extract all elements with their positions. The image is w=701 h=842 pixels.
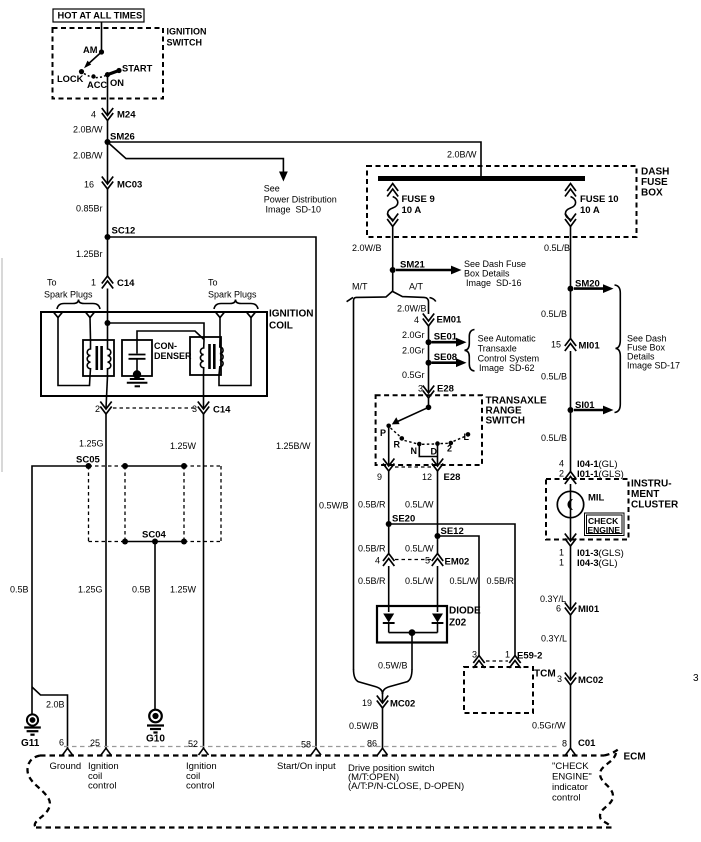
- svg-text:R: R: [394, 440, 401, 450]
- contact D: [435, 441, 440, 446]
- svg-text:DENSER: DENSER: [154, 351, 192, 361]
- connector MC02 pin 19: [377, 696, 388, 704]
- svg-text:5: 5: [425, 556, 430, 566]
- wire T2 primary out of coil box: [203, 375, 205, 409]
- svg-text:Box Details: Box Details: [464, 269, 510, 279]
- node SM21 (splice): [390, 267, 396, 273]
- svg-text:TCM: TCM: [534, 669, 556, 680]
- wire T2 secondary loop to terminal 4: [219, 318, 251, 386]
- svg-text:3: 3: [418, 384, 423, 394]
- svg-text:MC03: MC03: [117, 180, 142, 191]
- svg-text:3: 3: [693, 673, 699, 684]
- svg-text:control: control: [552, 793, 581, 804]
- svg-text:SM26: SM26: [110, 132, 135, 143]
- wire SI01 to instrument cluster, 0.5L/B: [570, 410, 572, 472]
- svg-text:START: START: [122, 64, 153, 74]
- svg-text:0.5L/W: 0.5L/W: [450, 576, 479, 586]
- ECM pin 86 entry: [378, 748, 388, 755]
- connector E28 joint dashed: [395, 466, 431, 468]
- connector C14 pin 2: [100, 402, 111, 410]
- brace over left spark plug terminals: [57, 300, 100, 310]
- switch arm to P with arrowhead: [398, 407, 429, 421]
- wire M24 to node SM26, 2.0B/W: [107, 121, 109, 143]
- svg-text:BOX: BOX: [641, 188, 663, 199]
- svg-text:2: 2: [559, 469, 564, 479]
- connector C14 joint dashed line: [113, 407, 196, 409]
- svg-text:E28: E28: [437, 384, 454, 395]
- svg-text:SWITCH: SWITCH: [486, 416, 525, 427]
- ignition coil box: [41, 312, 267, 396]
- wire cluster to MI01, 0.3Y/L: [570, 546, 572, 610]
- svg-text:0.5B/R: 0.5B/R: [358, 500, 386, 510]
- svg-text:DASH: DASH: [641, 167, 669, 178]
- svg-text:1.25B/W: 1.25B/W: [276, 441, 311, 451]
- svg-text:E28: E28: [444, 472, 461, 483]
- svg-text:Image SD-62: Image SD-62: [479, 363, 535, 373]
- scan edge artifact line: [1, 258, 3, 472]
- transaxle range switch box: [376, 395, 482, 465]
- connector E59-2 joint dashed: [486, 660, 508, 662]
- wire SE08 to connector E28, 0.5Gr: [428, 363, 430, 393]
- wire terminal3 to T2 secondary: [219, 318, 221, 338]
- svg-text:0.5Gr/W: 0.5Gr/W: [532, 721, 566, 731]
- wire junction down into left coil primary: [107, 323, 109, 341]
- svg-text:10 A: 10 A: [402, 205, 422, 216]
- splice bridge bottom with node SC04: [125, 541, 184, 543]
- spark plug terminal 2: [85, 312, 95, 318]
- fuse FUSE 9 10A: [387, 184, 435, 227]
- svg-text:1: 1: [91, 278, 96, 288]
- svg-text:3: 3: [557, 674, 562, 684]
- wire SM20 to connector MI01, 0.5L/B: [570, 289, 572, 339]
- svg-text:COIL: COIL: [269, 321, 293, 332]
- wire C14 pin3 down, 1.25W: [203, 414, 205, 749]
- connector E28 pin 12: [432, 459, 443, 467]
- svg-text:Start/On input: Start/On input: [277, 761, 336, 772]
- svg-text:0.5W/B: 0.5W/B: [349, 721, 379, 731]
- wire EM02 pin5 to diode, 0.5L/W: [437, 566, 439, 612]
- connector EM02 joint dashed: [395, 559, 431, 561]
- wire SM21 to M/T A/T split: [392, 270, 394, 292]
- brace for SD-62 note: [465, 330, 475, 372]
- svg-text:N: N: [411, 446, 418, 456]
- svg-text:6: 6: [556, 604, 561, 614]
- coil T2 secondary winding: [219, 337, 223, 375]
- svg-text:2.0B/W: 2.0B/W: [73, 151, 103, 161]
- svg-text:86: 86: [367, 739, 377, 749]
- svg-text:G10: G10: [146, 734, 165, 745]
- spark plug terminal 4: [246, 312, 256, 318]
- svg-text:MI01: MI01: [578, 604, 600, 615]
- svg-text:HOT AT ALL TIMES: HOT AT ALL TIMES: [58, 11, 143, 21]
- wire MC02 to ECM pin 8, 0.5Gr/W: [570, 685, 572, 749]
- contact L: [466, 432, 471, 437]
- svg-text:0.5L/B: 0.5L/B: [544, 243, 570, 253]
- svg-text:0.5L/B: 0.5L/B: [541, 309, 567, 319]
- svg-text:1.25G: 1.25G: [79, 439, 104, 449]
- coil T1 secondary winding: [87, 340, 90, 376]
- label CHECK ENGINE boxed: [585, 513, 625, 536]
- ECM pin 52 entry: [199, 748, 209, 755]
- wire SC12 to connector C14, 1.25Br: [107, 237, 109, 276]
- svg-text:0.5B/R: 0.5B/R: [358, 576, 386, 586]
- capacitor C (condenser): [136, 340, 138, 354]
- wire SC05 to ground branch: [32, 466, 89, 715]
- svg-text:EM01: EM01: [437, 315, 463, 326]
- wire condenser tap: [137, 331, 204, 340]
- svg-text:control: control: [88, 781, 117, 792]
- switch arm AM to LOCK with arrowhead: [87, 52, 102, 66]
- wire EM01 to node SE01, 2.0Gr: [428, 326, 430, 342]
- wire MI01 to node SI01, 0.5L/B: [570, 351, 572, 410]
- svg-text:3: 3: [472, 650, 477, 660]
- svg-text:Power Distribution: Power Distribution: [264, 195, 337, 205]
- wire pin9 to node SE20, 0.5B/R: [388, 471, 390, 524]
- connector MC03 pin 16: [102, 177, 113, 185]
- svg-text:4: 4: [91, 110, 96, 120]
- svg-text:(GL): (GL): [599, 558, 618, 569]
- svg-text:INSTRU-: INSTRU-: [631, 479, 672, 490]
- wire T1 secondary loop to terminal 1: [58, 318, 90, 386]
- wire SC12 branch right to Start/On input line: [108, 237, 317, 749]
- svg-text:19: 19: [362, 698, 372, 708]
- wire M/T branch: [354, 291, 393, 670]
- svg-text:SC04: SC04: [142, 530, 166, 541]
- condenser case: [122, 340, 152, 376]
- ECM pin 58 entry: [311, 748, 321, 755]
- wire C14 into ignition coil box: [107, 289, 109, 324]
- svg-text:10 A: 10 A: [580, 205, 600, 216]
- connector EM02 pin 5 (upward): [432, 554, 443, 562]
- svg-text:Image SD-17: Image SD-17: [627, 361, 680, 371]
- svg-text:8: 8: [562, 739, 567, 749]
- svg-text:SC05: SC05: [76, 455, 100, 466]
- connector E59-2 pin 3 (upward): [473, 656, 484, 664]
- wire FUSE9 to node SM21, 2.0W/B: [392, 227, 394, 271]
- connector EM02 pin 4 (upward): [383, 554, 394, 562]
- node SE08 (splice): [426, 360, 432, 366]
- svg-text:MC02: MC02: [390, 699, 415, 710]
- switch closed contact ON to START (thick): [108, 71, 120, 75]
- wire diode out, 0.5W/B: [411, 633, 413, 670]
- svg-text:AM: AM: [83, 45, 98, 55]
- node SE12 (splice): [435, 533, 441, 539]
- svg-text:ENGINE: ENGINE: [588, 525, 621, 535]
- svg-text:To: To: [208, 278, 218, 288]
- svg-text:2.0B/W: 2.0B/W: [447, 150, 477, 160]
- svg-text:ECM: ECM: [624, 752, 646, 763]
- coil T1 core: [96, 346, 99, 370]
- arrow SE08 to automatic transaxle control: [432, 361, 459, 364]
- svg-text:1.25Br: 1.25Br: [76, 249, 103, 259]
- contact N: [417, 442, 422, 447]
- wire from HOT AT ALL TIMES to AM contact: [101, 22, 103, 52]
- wire E28 pin3 to switch pivot: [428, 398, 430, 407]
- svg-text:0.5Gr: 0.5Gr: [402, 370, 425, 380]
- svg-text:(A/T:P/N-CLOSE, D-OPEN): (A/T:P/N-CLOSE, D-OPEN): [348, 781, 464, 792]
- svg-text:(GLS): (GLS): [599, 469, 624, 480]
- wire EM02 pin4 to diode, 0.5B/R: [388, 566, 390, 612]
- svg-text:See Dash Fuse: See Dash Fuse: [464, 259, 526, 269]
- wire SE12 branch to TCM pin 3: [438, 536, 480, 656]
- svg-text:2: 2: [447, 444, 452, 454]
- wire ON contact down to connector M24: [107, 75, 109, 115]
- wire A/T branch: [393, 292, 429, 315]
- svg-text:2.0B: 2.0B: [46, 700, 65, 710]
- wire SE20 to EM02 pin4, 0.5B/R: [388, 524, 390, 554]
- svg-text:D: D: [431, 447, 438, 457]
- wire SM26 to connector MC03, 2.0B/W: [107, 142, 109, 184]
- connector C14 pin 3: [198, 402, 209, 410]
- svg-text:control: control: [186, 781, 215, 792]
- node SM26 (splice): [105, 139, 111, 145]
- brace over right spark plug terminals: [214, 300, 258, 310]
- node: coil primary feed junction: [105, 320, 111, 326]
- wire MC02 to ECM pin 86, 0.5W/B: [382, 708, 384, 749]
- coil T2 case: [190, 337, 221, 375]
- svg-text:12: 12: [422, 472, 432, 482]
- svg-text:E59-2: E59-2: [517, 651, 542, 662]
- svg-text:M/T: M/T: [352, 282, 368, 292]
- svg-text:ACC: ACC: [87, 80, 107, 90]
- node SE01 (splice): [426, 339, 432, 345]
- wire G11 branch to ECM pin 6, 2.0B: [32, 687, 68, 749]
- svg-text:See Automatic: See Automatic: [478, 334, 537, 344]
- svg-text:Transaxle: Transaxle: [478, 344, 517, 354]
- svg-text:LOCK: LOCK: [57, 74, 84, 84]
- wire FUSE10 down, 0.5L/B: [570, 227, 572, 289]
- arrow SM20 to dash fuse box details: [574, 287, 605, 290]
- wire D contact down: [437, 444, 439, 466]
- contact P: [386, 424, 391, 429]
- wire merge funnel M/T + diode: [354, 669, 383, 694]
- ECM box outline (dashed, torn edges): [27, 750, 618, 828]
- wire C14 pin2 down, 1.25G: [105, 414, 107, 749]
- svg-text:0.5B/R: 0.5B/R: [487, 576, 515, 586]
- svg-text:1: 1: [505, 650, 510, 660]
- coil T1 case: [83, 340, 114, 376]
- connector MI01 pin 15 (upward): [565, 339, 576, 347]
- svg-text:2.0W/B: 2.0W/B: [352, 243, 382, 253]
- svg-text:Image SD-10: Image SD-10: [266, 205, 322, 215]
- ECM pin 25 entry: [101, 748, 111, 755]
- svg-text:1.25W: 1.25W: [170, 441, 197, 451]
- svg-text:ENGINE": ENGINE": [552, 772, 592, 783]
- svg-text:Spark Plugs: Spark Plugs: [208, 290, 257, 300]
- svg-text:MIL: MIL: [588, 493, 605, 504]
- dotted travel arc LOCK-ACC-ON: [84, 74, 106, 78]
- ECM pin 6 entry: [63, 748, 73, 755]
- splice bridge top: [125, 465, 184, 467]
- svg-text:MC02: MC02: [578, 675, 603, 686]
- svg-text:Image SD-16: Image SD-16: [466, 278, 522, 288]
- svg-text:To: To: [47, 278, 57, 288]
- coil T2 primary winding: [200, 340, 204, 375]
- label HOT AT ALL TIMES: [53, 9, 144, 22]
- arrow SI01 to dash fuse box details: [574, 409, 605, 412]
- wire pin12 to node SE12, 0.5L/W: [437, 471, 439, 536]
- wire SE20 branch to TCM pin 1: [389, 524, 515, 656]
- svg-text:C14: C14: [117, 278, 135, 289]
- wire junction to right coil primary: [108, 323, 205, 340]
- svg-text:2.0B/W: 2.0B/W: [73, 125, 103, 135]
- wire SC04 to ground G10, 0.5B: [154, 542, 156, 711]
- svg-text:IGNITION: IGNITION: [167, 27, 207, 37]
- wire SM26 branch to power distribution arrow: [108, 142, 284, 172]
- wire MC03 to node SC12, 0.85Br: [107, 189, 109, 237]
- svg-text:0.5B/R: 0.5B/R: [358, 544, 386, 554]
- connector cluster top pin (upward): [565, 472, 576, 480]
- svg-text:1: 1: [559, 548, 564, 558]
- svg-text:4: 4: [559, 459, 564, 469]
- contact ACC: [91, 74, 95, 78]
- svg-text:1.25W: 1.25W: [170, 585, 197, 595]
- svg-text:1: 1: [559, 558, 564, 568]
- dashed gate arc P-R-N-D-2-L: [391, 428, 466, 444]
- ECM pin 8 / connector C01 entry: [566, 748, 576, 755]
- svg-text:52: 52: [188, 739, 198, 749]
- svg-text:0.5B: 0.5B: [10, 585, 29, 595]
- svg-text:0.85Br: 0.85Br: [76, 204, 103, 214]
- diode box Z02: [377, 606, 447, 643]
- node SI01 (splice): [568, 407, 574, 413]
- wire terminal2 to T1 secondary: [89, 318, 92, 341]
- svg-text:FUSE: FUSE: [641, 177, 668, 188]
- spark plug terminal 3: [215, 312, 225, 318]
- svg-text:2: 2: [95, 404, 100, 414]
- svg-text:CLUSTER: CLUSTER: [631, 500, 679, 511]
- instrument cluster box: [546, 479, 629, 540]
- svg-text:G11: G11: [21, 738, 40, 749]
- svg-text:0.5L/B: 0.5L/B: [541, 372, 567, 382]
- svg-text:SWITCH: SWITCH: [167, 38, 203, 48]
- svg-text:FUSE 9: FUSE 9: [402, 194, 435, 205]
- svg-text:SE20: SE20: [392, 514, 415, 525]
- wire T1 primary out of coil box: [106, 376, 108, 409]
- wire N contact jog to pin 12: [419, 444, 437, 457]
- ignition switch box: [53, 28, 164, 99]
- bus bar: [378, 176, 585, 181]
- connector cluster bottom pin: [565, 534, 576, 542]
- svg-text:0.5L/B: 0.5L/B: [541, 433, 567, 443]
- connector MC02 pin 3: [565, 673, 576, 681]
- fuse FUSE 10 10A: [565, 184, 619, 227]
- connector M24 pin 4: [102, 108, 113, 116]
- contact START: [116, 68, 121, 73]
- wire SM26 to dash fuse box feed: [108, 142, 482, 177]
- spark plug terminal 1: [53, 312, 63, 318]
- svg-text:0.3Y/L: 0.3Y/L: [540, 594, 566, 604]
- svg-text:0.5B: 0.5B: [132, 585, 151, 595]
- svg-text:58: 58: [301, 740, 311, 750]
- connector EM01 pin 4: [423, 314, 434, 322]
- coil T2 core: [208, 344, 211, 369]
- svg-text:9: 9: [377, 472, 382, 482]
- diode common bus: [389, 632, 438, 634]
- contact AM: [99, 49, 104, 54]
- wire SE01 to node SE08, 2.0Gr: [428, 342, 430, 363]
- svg-text:C14: C14: [213, 405, 231, 416]
- contact LOCK: [79, 69, 84, 74]
- coil T1 primary winding: [108, 341, 111, 376]
- svg-text:Spark Plugs: Spark Plugs: [44, 290, 93, 300]
- node SE20 (splice): [386, 521, 392, 527]
- svg-text:See: See: [264, 184, 280, 194]
- arrow SE01 to automatic transaxle control: [432, 341, 459, 344]
- svg-text:CON-: CON-: [154, 341, 177, 351]
- svg-text:SE01: SE01: [434, 332, 458, 343]
- svg-text:16: 16: [84, 180, 94, 190]
- connector E28 pin 3: [423, 386, 434, 394]
- svg-text:6: 6: [59, 738, 64, 748]
- node SM20 (splice): [568, 286, 574, 292]
- dash fuse box: [367, 166, 637, 237]
- diode D2: [432, 614, 443, 623]
- contact R: [400, 436, 405, 441]
- condenser internal ground: [133, 370, 141, 378]
- svg-text:P: P: [380, 428, 386, 438]
- svg-text:SE08: SE08: [434, 352, 457, 363]
- svg-text:0.5L/W: 0.5L/W: [405, 544, 434, 554]
- svg-text:indicator: indicator: [552, 782, 588, 793]
- svg-text:"CHECK: "CHECK: [552, 761, 589, 772]
- brace for SD-17 note: [615, 285, 621, 413]
- switch pivot contact: [426, 405, 432, 411]
- svg-text:EM02: EM02: [445, 557, 470, 568]
- svg-text:4: 4: [375, 556, 380, 566]
- connector E59-2 pin 1 (upward): [509, 656, 520, 664]
- svg-text:MI01: MI01: [579, 341, 601, 352]
- wire P contact to E28 pin 9: [388, 426, 390, 466]
- svg-text:Ground: Ground: [50, 761, 82, 772]
- svg-text:2.0Gr: 2.0Gr: [402, 330, 425, 340]
- svg-text:I04-3: I04-3: [577, 558, 599, 569]
- arrow SM21 to dash fuse box details: [396, 269, 453, 272]
- contact ON: [105, 72, 110, 77]
- svg-text:0.3Y/L: 0.3Y/L: [541, 634, 567, 644]
- svg-text:IGNITION: IGNITION: [269, 309, 313, 320]
- svg-text:MENT: MENT: [631, 489, 659, 500]
- splice option dashed frame: [89, 466, 222, 542]
- ground G10: [149, 710, 162, 723]
- connector MI01 pin 6: [565, 603, 576, 611]
- lamp MIL: [570, 484, 572, 541]
- svg-text:25: 25: [90, 738, 100, 748]
- connector E28 pin 9: [383, 459, 394, 467]
- node SC12 (splice): [105, 234, 111, 240]
- TCM box: [464, 667, 533, 713]
- svg-text:FUSE 10: FUSE 10: [580, 194, 619, 205]
- internal connector gray joint line across ECM pins: [64, 746, 557, 748]
- svg-text:Control System: Control System: [478, 354, 540, 364]
- diode D1: [383, 614, 394, 623]
- svg-text:A/T: A/T: [409, 282, 424, 292]
- svg-text:M24: M24: [117, 110, 136, 121]
- svg-text:0.5W/B: 0.5W/B: [378, 661, 408, 671]
- svg-text:Z02: Z02: [449, 618, 467, 629]
- svg-text:0.5L/W: 0.5L/W: [405, 500, 434, 510]
- svg-text:2.0Gr: 2.0Gr: [402, 346, 425, 356]
- svg-text:DIODE: DIODE: [449, 606, 481, 617]
- ground G11: [27, 714, 38, 725]
- wire MI01 to MC02, 0.3Y/L: [570, 615, 572, 680]
- svg-text:3: 3: [192, 404, 197, 414]
- svg-text:0.5W/B: 0.5W/B: [319, 501, 349, 511]
- svg-text:1.25G: 1.25G: [78, 585, 103, 595]
- svg-text:0.5L/W: 0.5L/W: [405, 576, 434, 586]
- connector C14 pin 1 (upward): [102, 276, 113, 284]
- svg-text:SC12: SC12: [112, 226, 136, 237]
